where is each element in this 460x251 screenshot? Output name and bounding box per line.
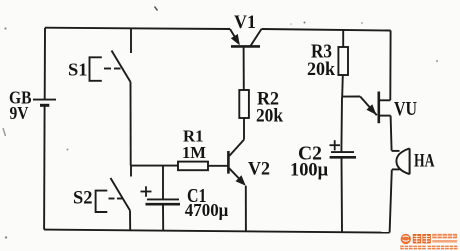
- label V2: [248, 159, 270, 180]
- transistor V2 (NPN): [228, 151, 245, 186]
- label R1: [183, 127, 204, 146]
- resistor R3: [338, 47, 348, 75]
- wire node B to C2: [340, 97, 343, 152]
- capacitor C1: [146, 199, 181, 204]
- UJT VU base bar: [377, 92, 380, 124]
- wire S1 stub from top rail: [130, 28, 132, 53]
- wire top rail right segment: [262, 29, 391, 31]
- svg-text:20k: 20k: [256, 106, 283, 127]
- wire left vertical upper (top rail to battery +): [44, 28, 46, 100]
- wire R1 to V2 base: [208, 165, 228, 167]
- switch S2: [96, 178, 130, 212]
- label C1: [187, 185, 207, 207]
- plus sign of C1: [141, 186, 152, 197]
- UJT VU emitter lead: [342, 97, 377, 116]
- wire S2 stub from junction A: [130, 166, 132, 177]
- wire R3 stub from top rail: [342, 30, 344, 47]
- wire R3 to node B: [341, 75, 344, 97]
- label 9V: [10, 103, 29, 123]
- wire V1 base to R2: [243, 47, 245, 90]
- label GB: [9, 88, 32, 108]
- watermark logo circle: [401, 234, 411, 244]
- svg-text:4700μ: 4700μ: [185, 200, 229, 220]
- svg-text:V2: V2: [248, 159, 270, 180]
- svg-text:100μ: 100μ: [290, 161, 328, 181]
- wire R2 to V2 collector: [229, 118, 244, 156]
- label 100u: [290, 161, 328, 181]
- svg-text:S1: S1: [68, 60, 88, 80]
- stray scan speck: [304, 22, 306, 24]
- transistor V1 (PNP): [230, 29, 262, 46]
- UJT VU B2 lead: [379, 99, 391, 101]
- svg-text:S2: S2: [73, 188, 93, 209]
- capacitor C2: [330, 152, 356, 157]
- wire V2 emitter to bottom rail: [245, 186, 247, 232]
- UJT VU B1 lead: [379, 115, 391, 117]
- label S1: [68, 60, 88, 80]
- label R2: [257, 89, 279, 110]
- wire S2 to bottom rail: [129, 211, 131, 231]
- label R3: [311, 41, 332, 63]
- label C2: [298, 143, 322, 165]
- stray scan tick top: [155, 7, 158, 11]
- watermark small text right: [432, 234, 457, 243]
- resistor R2: [239, 90, 249, 118]
- stray scan speck near S1 wire: [67, 149, 69, 151]
- wire C1 to bottom rail: [162, 204, 164, 230]
- battery GB: [33, 100, 56, 106]
- plus sign of C2: [330, 140, 341, 150]
- svg-text:VU: VU: [394, 99, 417, 120]
- svg-text:V1: V1: [234, 13, 256, 33]
- stray scan speck below V1: [290, 23, 292, 25]
- stray scan mark left edge middle: [3, 128, 6, 136]
- wire C1 stub from R1 wire: [162, 166, 164, 200]
- resistor R1: [178, 162, 208, 171]
- wire speaker to bottom rail: [390, 170, 392, 233]
- wire junction A to R1: [131, 165, 178, 167]
- wire VU B1 to speaker: [391, 116, 392, 151]
- svg-text:HA: HA: [414, 151, 435, 172]
- stray scan speck bottom left: [5, 236, 7, 238]
- label HA: [414, 151, 435, 172]
- svg-text:1M: 1M: [182, 143, 206, 162]
- label 4700u: [185, 200, 229, 220]
- wire top rail left segment: [45, 28, 230, 29]
- wire right vertical (top rail corner to VU B2): [389, 31, 391, 101]
- label 20k of R2: [256, 106, 283, 127]
- label 1M: [182, 143, 206, 162]
- label VU: [394, 99, 417, 120]
- wire left vertical lower (battery - to bottom rail): [43, 106, 46, 230]
- stray scan speck right upper: [361, 22, 363, 24]
- speaker HA: [392, 148, 410, 174]
- stray scan speck right of R3: [436, 60, 438, 62]
- watermark bottom row: [400, 246, 457, 250]
- wire S1 to junction A: [130, 82, 132, 166]
- switch S1: [90, 51, 131, 83]
- label S2: [73, 188, 93, 209]
- watermark big text blocks: [413, 234, 431, 243]
- svg-text:20k: 20k: [307, 59, 335, 80]
- stray scan speck left edge upper: [4, 27, 6, 29]
- label V1: [234, 13, 256, 33]
- label 20k of R3: [307, 59, 335, 80]
- wire bottom rail: [44, 230, 390, 233]
- svg-text:9V: 9V: [10, 103, 29, 123]
- wire C2 to bottom rail: [341, 158, 344, 233]
